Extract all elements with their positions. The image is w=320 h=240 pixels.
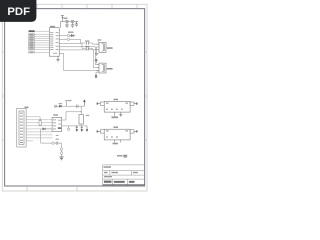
value label C12 bbox=[85, 40, 90, 41]
label U1 bbox=[50, 26, 55, 27]
wire bus RN1 to U1 bbox=[35, 34, 50, 52]
title text row1 bbox=[104, 166, 138, 177]
ferrite bead FB2 bbox=[59, 38, 79, 40]
wire C12 to J1 pin1 bbox=[88, 43, 99, 44]
wire top rail bbox=[54, 105, 81, 107]
resistor network RN1 boxes bbox=[29, 34, 35, 54]
crystal Y1 bbox=[79, 115, 84, 125]
label J3 bbox=[25, 107, 29, 109]
sheet note text 2 bbox=[123, 155, 127, 157]
diode D4 bbox=[71, 34, 76, 37]
power flag VCC bbox=[61, 16, 64, 22]
U2 internal text bbox=[53, 119, 61, 129]
LED D3 bbox=[60, 148, 63, 151]
sheet inner border bbox=[5, 9, 145, 186]
polarized cap C14 bbox=[54, 105, 56, 107]
wire J2 bottom to ground bbox=[96, 72, 99, 74]
PDF badge plate bbox=[0, 0, 36, 22]
op IC U1 bbox=[49, 28, 59, 57]
ground below LEDs bbox=[60, 157, 64, 160]
wire R3 top bbox=[39, 117, 41, 121]
K2 right pin box bbox=[130, 130, 134, 133]
K2 inner pin text bbox=[106, 130, 128, 137]
ground below U1 bbox=[56, 56, 60, 62]
label K2 bbox=[114, 127, 119, 129]
ferrite bead FB1 bbox=[59, 34, 71, 36]
wire down to LEDs bbox=[61, 143, 63, 148]
connector J2 bbox=[97, 63, 106, 73]
net label USB_L bbox=[107, 68, 113, 70]
reference label RN1 bbox=[29, 30, 35, 32]
junction node R3 bbox=[40, 119, 41, 120]
title text row2 dark bbox=[104, 181, 135, 183]
diode D1 bbox=[43, 128, 52, 130]
capacitor C11 bbox=[71, 20, 74, 25]
polarized cap C16 bbox=[52, 142, 54, 144]
wire U1 to J2 pin3 bbox=[59, 53, 99, 70]
K1 inner pin text bbox=[106, 103, 128, 110]
wire U1 to J2 pin2 bbox=[59, 50, 99, 68]
RN1 box value smudges bbox=[30, 34, 34, 53]
J3 wires right bbox=[26, 117, 52, 141]
K2 bottom stubs bbox=[115, 140, 121, 143]
label above U1 right bbox=[68, 32, 74, 33]
power flag VCC2 bbox=[65, 101, 68, 107]
capacitor C19 series bbox=[54, 142, 61, 145]
ground above J2 bbox=[95, 58, 98, 63]
wire U2 pin to upper rail bbox=[62, 112, 81, 120]
wire RN1 top row bbox=[35, 30, 50, 32]
LED D6 bbox=[60, 152, 63, 155]
K1 bottom stubs bbox=[115, 112, 121, 116]
K1 left pin box bbox=[100, 102, 104, 105]
capacitor C10 bbox=[66, 20, 69, 25]
sheet background bbox=[0, 0, 149, 198]
power arrow up bbox=[81, 100, 85, 106]
net label at VCC2 bbox=[68, 100, 72, 101]
K2 left pin box bbox=[100, 130, 104, 133]
ground arrow GA3 bbox=[86, 126, 88, 132]
op IC U2 bbox=[52, 117, 62, 131]
wire lower rail bbox=[62, 125, 87, 127]
connector J3 pin strip bbox=[19, 111, 24, 144]
K2 right lead component bbox=[134, 130, 137, 133]
wire J1 pin2 stub down bbox=[96, 47, 98, 53]
K1 stub label bbox=[112, 116, 119, 118]
sheet note tick bbox=[124, 156, 127, 159]
ground for C10 bbox=[65, 25, 69, 27]
test point TP1 bbox=[67, 126, 70, 131]
connector J3 shell bbox=[17, 108, 26, 147]
value label Y1 bbox=[86, 115, 90, 116]
K1 right lead component bbox=[134, 102, 137, 105]
U2 below smudge bbox=[56, 135, 59, 136]
capacitor C17 to ground bbox=[76, 126, 78, 132]
reference label U2 bbox=[53, 114, 58, 115]
resistor R3 bbox=[39, 121, 41, 125]
value label D5 bbox=[59, 103, 63, 104]
connector J1 stub top bbox=[98, 41, 100, 43]
capacitor C13 series bbox=[87, 47, 89, 50]
wire C13 to J1 pin3 bbox=[88, 49, 99, 50]
wire bbox=[61, 154, 63, 157]
K1 left lead component bbox=[97, 102, 100, 105]
value label C16 bbox=[56, 139, 59, 140]
U1 internal pin name text bbox=[50, 32, 58, 54]
svg-text:PDF: PDF bbox=[7, 6, 30, 18]
U2 pin name dark blob bbox=[58, 127, 61, 128]
K2 left lead component bbox=[97, 130, 100, 133]
diode D5 bbox=[59, 105, 61, 107]
J3 pin marks bbox=[20, 113, 23, 143]
junction node lower rail bbox=[76, 125, 77, 126]
ground J1 bbox=[95, 53, 98, 55]
label K1 bbox=[114, 99, 119, 101]
K2 stub label bbox=[113, 143, 119, 145]
wire power rail bbox=[61, 21, 79, 23]
wire Y1 top bbox=[80, 106, 82, 114]
ground arrow below J2 bbox=[95, 75, 97, 79]
capacitor C12 series bbox=[87, 41, 89, 44]
wire bbox=[61, 151, 63, 152]
wire Y1 bottom bbox=[80, 124, 82, 126]
sheet outer border bbox=[2, 4, 147, 191]
wire jog to C12 bbox=[79, 39, 86, 43]
net label USB_R bbox=[107, 47, 113, 49]
wire U1 to J2 pin1 bbox=[59, 47, 99, 65]
capacitor C18 to ground bbox=[81, 126, 83, 132]
junction Y1 top bbox=[81, 111, 82, 112]
relay module K2 bbox=[104, 129, 130, 140]
ground K1 bbox=[119, 114, 122, 116]
connector J1 label top bbox=[98, 39, 102, 40]
zone tick top bbox=[2, 4, 147, 191]
connector J1 bbox=[97, 42, 106, 52]
value label C13 bbox=[85, 46, 90, 47]
title block bottom rule bbox=[103, 184, 145, 186]
sheet note text bbox=[117, 155, 123, 156]
title block frame bbox=[103, 165, 145, 186]
ground for C11 bbox=[71, 25, 75, 27]
capacitor C15 series on rail bbox=[76, 105, 78, 108]
K1 right pin box bbox=[130, 102, 134, 105]
wire D1 branch down bbox=[41, 129, 52, 143]
relay module K1 bbox=[104, 101, 130, 112]
wire row C bbox=[59, 43, 86, 48]
wire from rail down to U1 bbox=[60, 22, 62, 28]
ground right of cluster bbox=[75, 22, 79, 27]
value label C10 bbox=[64, 18, 68, 20]
